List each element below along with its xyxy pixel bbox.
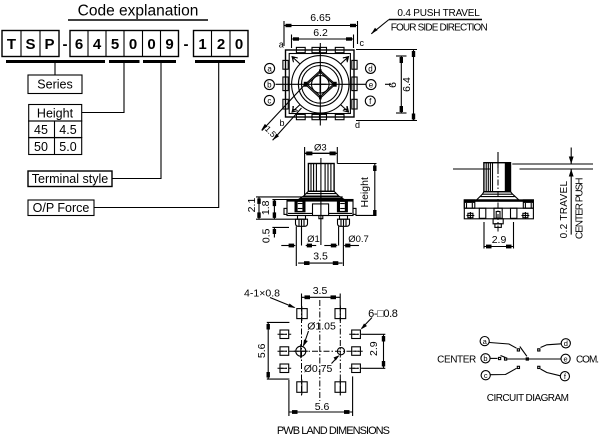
underline bar 1 [6,60,105,63]
circled terminal b [264,80,274,90]
pwb dim 3.5 [302,285,341,306]
svg-text:45: 45 [34,123,48,137]
svg-text:0.5: 0.5 [261,228,273,243]
circuit terminal d [561,339,570,349]
diamond vertex mark top [319,69,322,72]
travel leader line 1 [512,163,593,165]
pwb dim 5.6 bottom [289,376,353,416]
circuit wire b [490,356,561,361]
svg-text:5.6: 5.6 [256,343,268,358]
svg-text:0: 0 [129,36,137,53]
svg-text:d: d [355,120,360,130]
pwb corner pad bottom-left [297,380,307,395]
svg-text:0.4 PUSH TRAVEL: 0.4 PUSH TRAVEL [397,8,480,19]
svg-text:d: d [564,339,568,348]
circuit wire a [490,343,520,352]
pwb center axis vertical [319,300,321,401]
circled terminal d [366,63,376,73]
dim dia3 [305,143,338,196]
side view knob [484,163,511,192]
side view knob flange [477,192,519,200]
dim 2.1 [246,197,297,219]
svg-text:Height: Height [37,107,74,121]
underline bar 4 [195,60,245,63]
pwb corner pad bottom-right [335,380,346,395]
front view right side tab [353,208,356,214]
svg-text:CENTER PUSH: CENTER PUSH [574,178,585,239]
side view bottom post [493,219,503,228]
svg-text:a: a [279,40,284,50]
pwb side pads right column [352,330,361,373]
svg-text:5.0: 5.0 [59,140,76,154]
height connector [82,62,124,113]
top view notches top edge [296,47,344,52]
svg-text:0: 0 [235,36,243,53]
svg-text:c: c [484,371,488,380]
circled terminal c [264,95,274,105]
dim dia1 and dia0.7 [281,227,369,267]
svg-text:3.5: 3.5 [313,285,328,297]
top view notches left edge [283,60,288,109]
top view body square [286,50,355,117]
top view outer circle [292,56,349,113]
svg-text:6.65: 6.65 [310,12,331,24]
svg-text:P: P [44,36,54,53]
svg-text:O/P Force: O/P Force [33,201,90,215]
svg-text:COM.: COM. [576,354,598,365]
svg-text:4-1×0.8: 4-1×0.8 [244,288,280,300]
side view centerline [497,152,499,168]
circuit terminal a [480,337,489,347]
diamond vertex mark left [304,82,308,87]
svg-text:2: 2 [217,36,225,53]
svg-text:FOUR SIDE DIRECTION: FOUR SIDE DIRECTION [391,23,488,34]
svg-text:Ø1.05: Ø1.05 [307,321,336,333]
svg-text:4.5: 4.5 [59,123,76,137]
pwb dim 2.9 right [363,334,386,368]
svg-text:2.1: 2.1 [246,198,258,213]
dim 6 [387,56,407,113]
svg-text:c: c [360,38,365,48]
top view inner circle [312,76,330,94]
circuit terminal c [481,371,490,381]
height box [29,105,82,122]
svg-text:T: T [7,36,16,53]
top view circle 3 [302,66,340,104]
circled terminal e [366,80,376,90]
top view crosshair vertical [319,43,321,126]
terminal style box [28,171,112,187]
circuit terminal f [560,372,569,382]
circuit wire d [538,344,562,351]
side view body [464,200,533,219]
svg-text:b: b [483,354,487,363]
dim 2.9 side [484,222,514,249]
pwb side pads left column [280,330,289,373]
svg-text:a: a [267,64,272,73]
pwb label 4-1x0.8 [244,288,295,309]
height table [29,121,82,155]
arrow SE [341,105,349,112]
circuit terminal b [481,354,490,364]
front view knob [308,164,334,192]
diagonal dim leader 2 [273,108,302,140]
svg-text:Series: Series [37,78,72,92]
title Code explanation [68,3,208,21]
top view center tick [314,83,326,85]
series connector [54,62,56,75]
top view slot [319,76,321,93]
svg-text:-: - [184,36,189,53]
svg-text:6.2: 6.2 [313,27,328,39]
pwb axis row bottom [278,367,364,369]
svg-text:-: - [63,36,68,53]
underline bar 2 [109,60,140,63]
diagonal dim leader 1 [261,84,305,130]
travel dim line [569,148,574,235]
top view circle 2 [298,62,342,106]
side view left screw mark [467,212,475,219]
front view center post [313,204,329,219]
pwb axis row top [278,333,364,335]
pwb axis left vertical [301,306,303,397]
underline bar 3 [143,60,176,63]
svg-text:6: 6 [75,36,83,53]
dim 6.2 [292,27,354,48]
svg-text:1.8: 1.8 [260,200,272,215]
svg-text:c: c [267,96,271,105]
pwb corner pad top-right [335,306,346,321]
pwb label dia0.75 [304,355,340,375]
side view left cap [464,200,475,208]
diamond vertex mark bottom [319,96,322,99]
pwb label dia1.05 [303,321,336,347]
side view inner rect left [479,208,486,218]
svg-text:6.4: 6.4 [401,77,413,92]
svg-text:CENTER: CENTER [437,354,476,365]
part number boxes 645009 [70,31,179,57]
arrow NW [292,57,300,64]
arrow SW [292,105,300,112]
top view notches bottom edge [296,114,344,119]
part number boxes TSP [2,31,59,57]
push travel note [371,8,487,34]
circled terminal a [265,63,275,73]
front view left contact block [295,201,305,211]
dim 3.5 front [298,251,342,266]
pwb hole dia0.75 [337,348,344,355]
pwb dim 5.6 left [256,322,290,379]
circuit wire c [491,366,520,374]
o/p force connector [94,62,219,208]
arrow NE [341,57,349,64]
top view notches right edge [352,60,357,109]
svg-text:0.2 TRAVEL: 0.2 TRAVEL [559,181,570,239]
svg-text:1: 1 [198,36,206,53]
travel leader line 2 [453,168,593,170]
dim height [337,164,376,216]
circuit wire f [538,366,561,376]
series box [28,75,82,94]
o/p force box [28,200,94,216]
dim 1.8 [260,200,289,220]
svg-text:9: 9 [165,36,173,53]
pwb corner pad top-left [297,306,307,321]
front view body [256,197,353,216]
svg-text:Ø3: Ø3 [314,143,327,154]
svg-text:Code explanation: Code explanation [78,3,199,20]
svg-text:Ø1: Ø1 [307,234,320,245]
svg-text:e: e [564,355,568,364]
svg-text:6: 6 [387,82,399,88]
dim 6.65 [284,12,358,46]
pwb label 6-sq0.8 [361,308,398,330]
svg-text:6-□0.8: 6-□0.8 [368,308,398,320]
svg-text:CIRCUIT DIAGRAM: CIRCUIT DIAGRAM [487,393,569,404]
svg-text:0: 0 [147,36,155,53]
svg-text:S: S [25,36,35,53]
front view left side tab [284,208,287,214]
diamond vertex mark right [333,82,337,87]
svg-text:Height: Height [359,177,371,207]
svg-text:PWB LAND DIMENSIONS: PWB LAND DIMENSIONS [277,425,390,437]
circuit arm center [520,347,527,357]
svg-text:5: 5 [111,36,119,53]
svg-text:b: b [280,118,285,128]
svg-text:e: e [369,81,374,90]
pwb axis horizontal [278,350,363,352]
part number boxes 120 [194,31,249,57]
svg-text:2.9: 2.9 [368,341,380,356]
front view centerline [320,158,322,245]
top view diamond [305,71,335,99]
svg-text:Ø0.75: Ø0.75 [304,363,333,375]
front view right pin [338,216,350,227]
dim 0.5 [261,227,290,243]
svg-text:d: d [368,64,372,73]
front view left pin [296,216,308,227]
front view knob flange [300,191,343,198]
svg-text:2.9: 2.9 [492,234,507,246]
front view right contact block [338,201,348,211]
svg-text:3.5: 3.5 [313,251,328,263]
side view right screw mark [522,212,530,219]
svg-text:Ø0.7: Ø0.7 [348,234,369,245]
top view crosshair horizontal [276,83,392,85]
svg-text:5.6: 5.6 [315,401,330,413]
svg-text:b: b [267,81,272,90]
circled terminal f [365,96,375,106]
pwb axis right vertical [339,306,341,397]
side view right cap [523,200,533,208]
side view inner rect center [494,208,502,218]
terminal style connector [112,62,161,179]
circuit terminal e [561,354,570,364]
dim 6.4 [356,50,417,121]
svg-text:50: 50 [34,140,48,154]
svg-text:Terminal style: Terminal style [32,172,108,186]
side view inner rect right [511,208,517,218]
svg-text:4: 4 [93,36,102,53]
pwb hole dia1.05 [294,344,308,358]
